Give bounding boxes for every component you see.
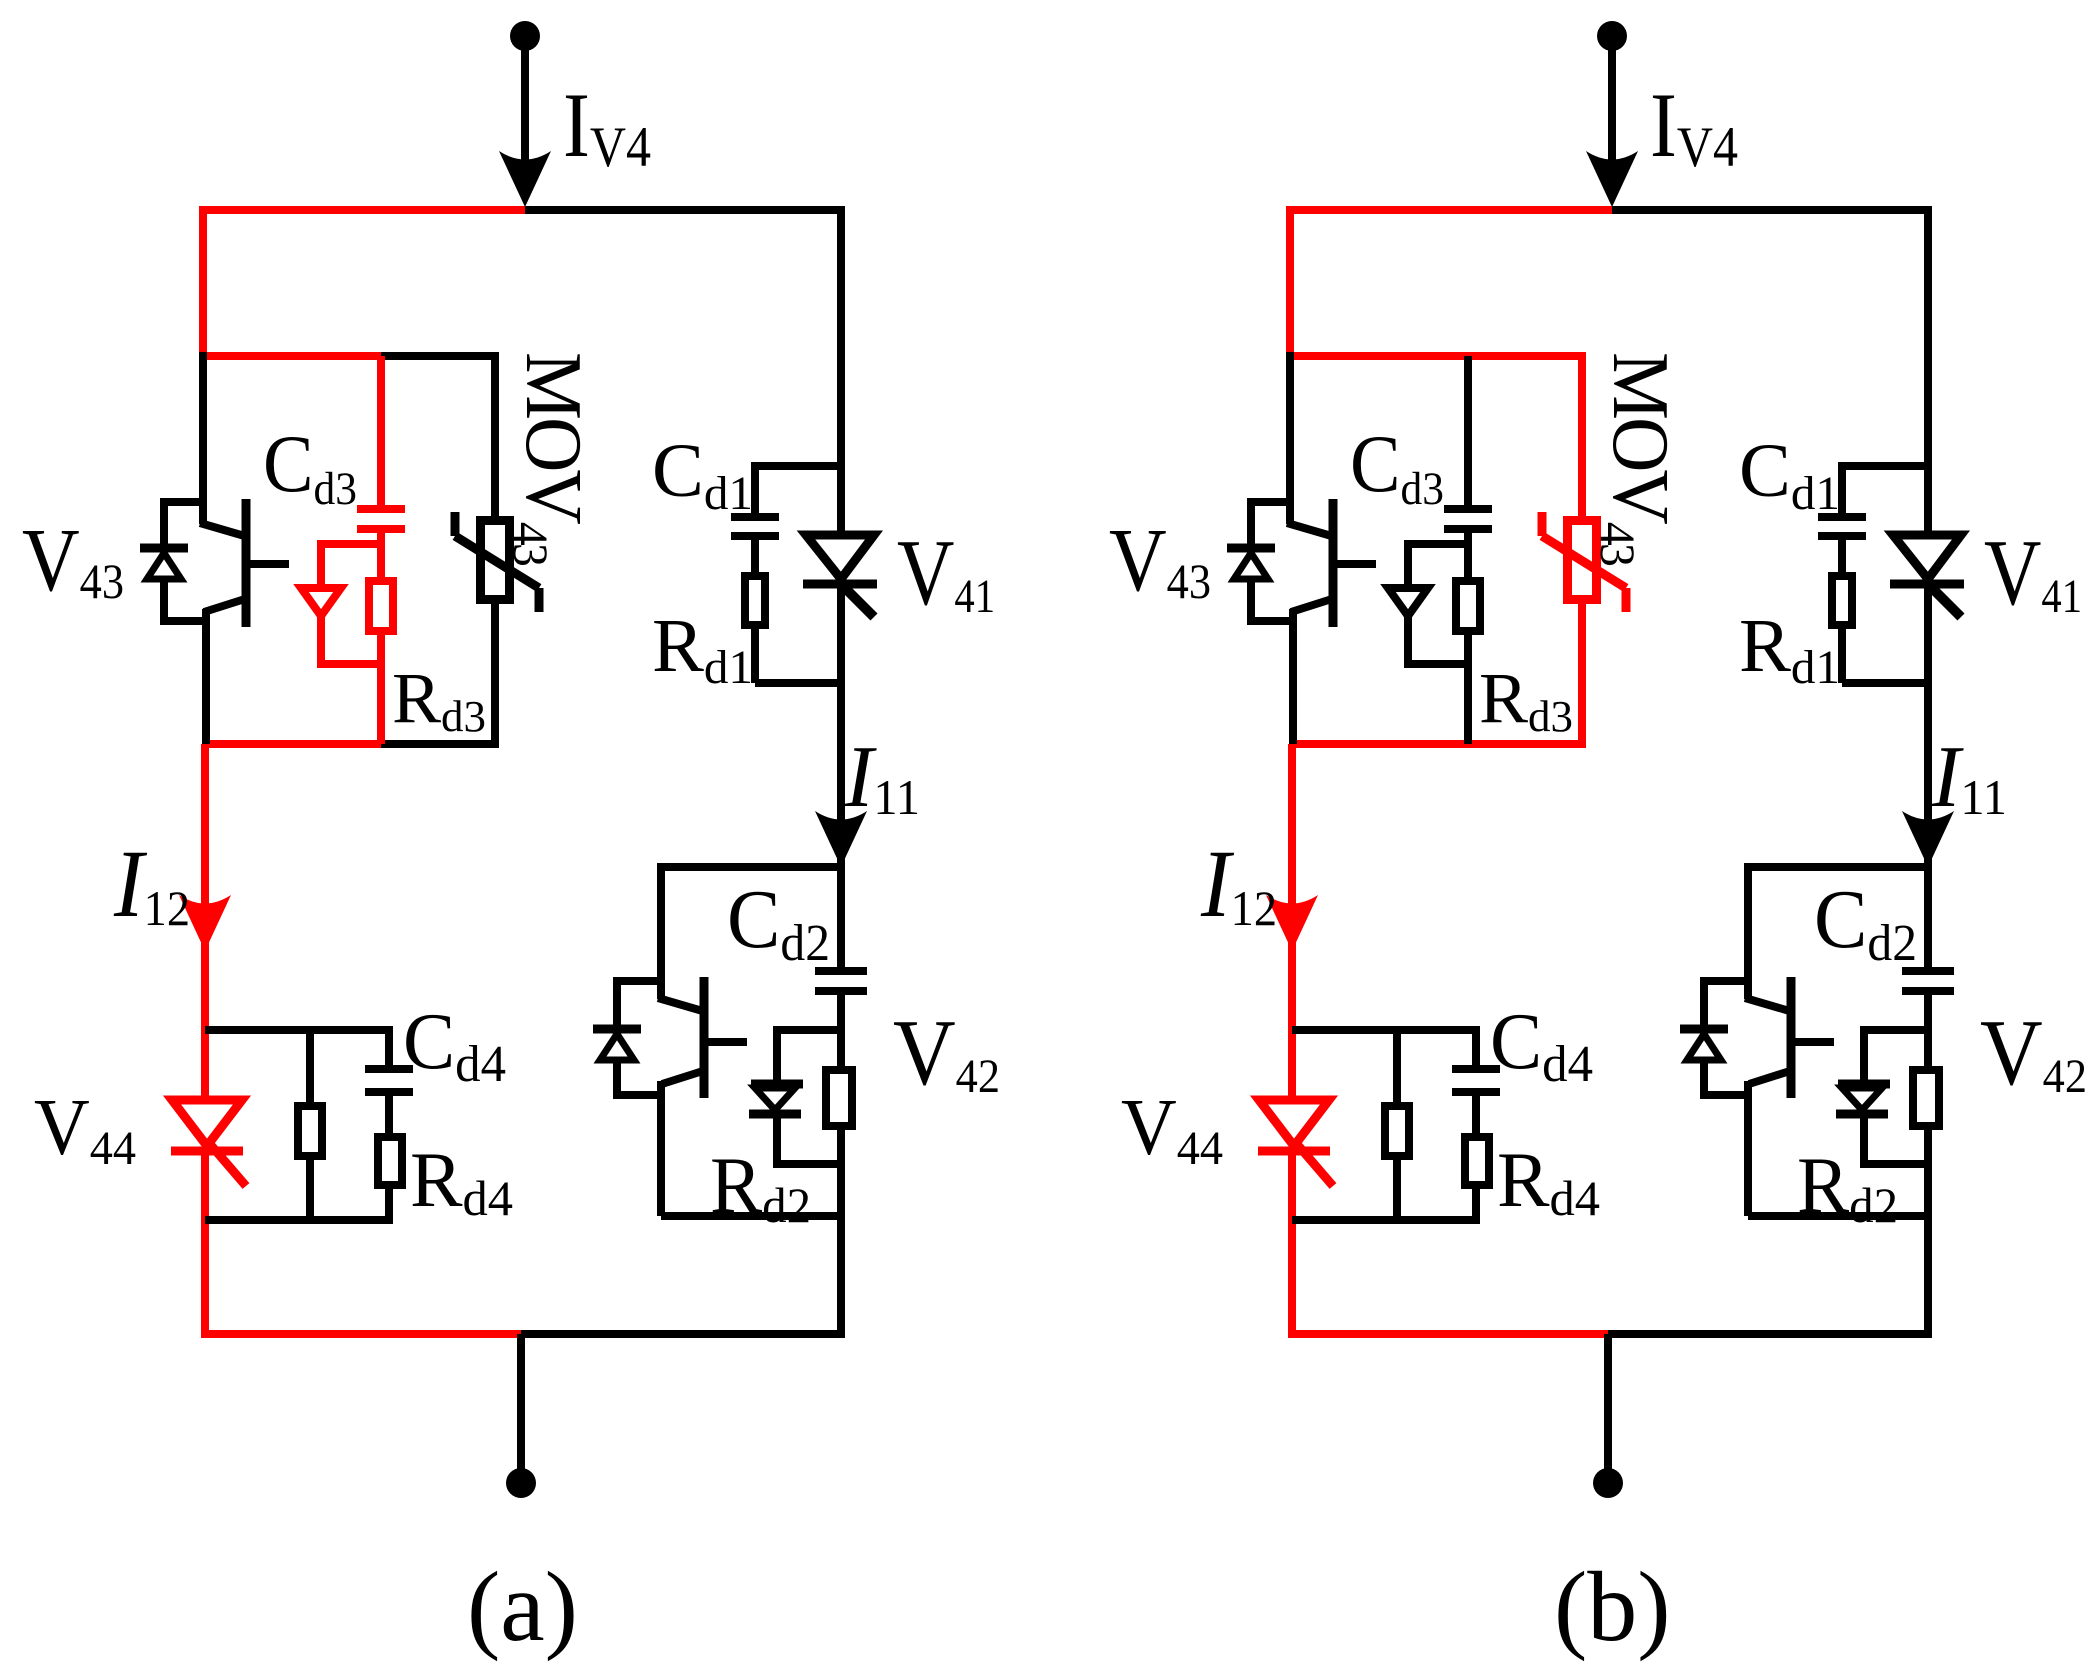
- wire: Rd3 branch lower (a): [377, 635, 385, 744]
- wire: right branch upper (a): [837, 206, 845, 531]
- resistor (grading) in V44 snubber (a): [298, 1106, 322, 1156]
- resistor Rd3 (b): [1456, 581, 1480, 631]
- node: top terminal (a): [510, 21, 540, 51]
- wire: top rail left (red) (a): [203, 206, 527, 214]
- wire: block bottom rail left (red) (b): [1290, 740, 1472, 748]
- current arrow I_11 (b): [1902, 811, 1954, 867]
- thyristor V44 (red) (b): [1259, 1100, 1329, 1146]
- wire: bottom terminal stem (a): [517, 1334, 525, 1469]
- current arrow I_12 (b): [1266, 895, 1318, 951]
- wire: merge below diode (b): [1408, 660, 1468, 668]
- resistor Rd3 (a): [369, 581, 393, 631]
- wire: Cd2 snubber diode tap (a): [777, 1026, 841, 1034]
- wire: bottom rail left (red) (b): [1288, 1330, 1610, 1338]
- wire: V44 cathode to bottom rail (red) (b): [1288, 1151, 1296, 1334]
- wire: right branch lower (a): [837, 1130, 845, 1334]
- wire: diode merge (a): [777, 1160, 841, 1168]
- wire: snubber block top rail (b): [1292, 1026, 1480, 1034]
- wire: Rd1 merge (a): [755, 679, 841, 687]
- svg-text:(b): (b): [1554, 1551, 1671, 1662]
- resistor Rd2 (b): [1913, 1070, 1939, 1126]
- wire: MOV branch lower (a): [491, 604, 499, 744]
- wire: block top rail right (a): [381, 352, 499, 360]
- wire: block top rail left (b): [1290, 352, 1468, 360]
- wire: block top rail left (a): [203, 352, 381, 360]
- wire: left branch to V44 (red) (a): [201, 744, 209, 1100]
- wire: MOV branch upper (a): [491, 356, 499, 518]
- transistor V43 (IGBT with antiparallel diode) (b): [1286, 352, 1294, 524]
- capacitor Cd4 (a): [365, 1065, 413, 1073]
- wire: Cd3 branch upper (b): [1464, 356, 1472, 507]
- wire: bottom rail right (b): [1608, 1330, 1932, 1338]
- current arrow I_V4 (b): [1586, 151, 1638, 207]
- capacitor Cd4 (b): [1452, 1065, 1500, 1073]
- wire: Rd1 merge (b): [1842, 679, 1928, 687]
- wire: split to diode branch (a): [321, 540, 381, 548]
- wire: top rail right (a): [525, 206, 841, 214]
- wire: Cd2 snubber diode tap (b): [1864, 1026, 1928, 1034]
- wire: bottom rail right (a): [521, 1330, 845, 1338]
- wire: block bottom rail right (b): [1468, 740, 1586, 748]
- resistor Rd4 (b): [1465, 1137, 1489, 1185]
- wire: MOV branch upper (b): [1578, 356, 1586, 518]
- wire: bottom terminal stem (b): [1604, 1334, 1612, 1469]
- transistor V42 (IGBT with antiparallel diode) (b): [1744, 863, 1752, 999]
- current arrow I_V4 (a): [499, 151, 551, 207]
- resistor Rd1 (b): [1832, 576, 1852, 625]
- transistor V43 (IGBT with antiparallel diode) (a): [199, 352, 207, 524]
- wire: left drop (red) (b): [1286, 206, 1294, 356]
- wire: split to diode branch (b): [1408, 540, 1468, 548]
- wire: snubber block bottom rail (b): [1292, 1216, 1480, 1224]
- wire: bottom rail left (red) (a): [201, 1330, 523, 1338]
- capacitor Cd2 (a): [815, 967, 867, 975]
- wire: Cd3 to split (b): [1464, 533, 1472, 581]
- wire: right branch mid (a): [837, 584, 845, 866]
- wire: right branch lower (b): [1924, 1130, 1932, 1334]
- varistor MOV43 (b): [1568, 521, 1597, 600]
- wire: right branch upper (b): [1924, 206, 1932, 531]
- wire: V42 block top rail (b): [1748, 863, 1932, 871]
- resistor (grading) in V44 snubber (b): [1385, 1106, 1409, 1156]
- resistor Rd2 (a): [826, 1070, 852, 1126]
- wire: left drop (red) (a): [199, 206, 207, 356]
- diode: antiparallel diode of V42 (b): [1704, 977, 1748, 985]
- node: bottom terminal (a): [506, 1468, 536, 1498]
- capacitor Cd3 (a): [357, 505, 405, 513]
- wire: right branch mid (b): [1924, 584, 1932, 866]
- wire: left branch to V44 (red) (b): [1288, 744, 1296, 1100]
- current arrow I_12 (a): [179, 895, 231, 951]
- diode: antiparallel diode of V42 (a): [617, 977, 661, 985]
- wire: block top rail right (b): [1468, 352, 1586, 360]
- capacitor Cd1 (b): [1818, 513, 1866, 521]
- resistor Rd4 (a): [378, 1137, 402, 1185]
- thyristor V44 (red) (a): [172, 1100, 242, 1146]
- svg-text:(a): (a): [467, 1551, 578, 1662]
- diode (freewheel, hollow) in Rd3 branch (b): [1388, 588, 1428, 616]
- wire: diode merge (b): [1864, 1160, 1928, 1168]
- capacitor Cd3 (b): [1444, 505, 1492, 513]
- capacitor Cd2 (b): [1902, 967, 1954, 975]
- resistor Rd1 (a): [745, 576, 765, 625]
- capacitor Cd1 (a): [731, 513, 779, 521]
- wire: block bottom rail right (a): [381, 740, 499, 748]
- wire: grading resistor branch (a): [306, 1030, 314, 1102]
- wire: Cd3 branch upper (a): [377, 356, 385, 507]
- diode: antiparallel diode of V43 (a): [164, 498, 206, 506]
- wire: V42 block top rail (a): [661, 863, 845, 871]
- wire: main line into Cd2 (b): [1924, 863, 1932, 969]
- wire: V42 block bottom rail (a): [661, 1212, 845, 1220]
- diode in Rd2 branch (b): [1860, 1026, 1868, 1084]
- transistor V42 (IGBT with antiparallel diode) (a): [657, 863, 665, 999]
- wire: Cd1 tap (a): [755, 462, 841, 470]
- wire: top rail right (b): [1612, 206, 1928, 214]
- diode in Rd2 branch (a): [773, 1026, 781, 1084]
- thyristor V41 (b): [1893, 535, 1961, 579]
- thyristor V41 (a): [806, 535, 874, 579]
- diode: antiparallel diode of V43 (b): [1251, 498, 1293, 506]
- wire: Cd4 branch upper (a): [385, 1030, 393, 1067]
- wire: snubber block bottom rail (a): [205, 1216, 393, 1224]
- node: top terminal (b): [1597, 21, 1627, 51]
- wire: top rail left (red) (b): [1290, 206, 1614, 214]
- wire: snubber block top rail (a): [205, 1026, 393, 1034]
- wire: MOV branch lower (b): [1578, 604, 1586, 744]
- current arrow I_11 (a): [815, 811, 867, 867]
- diode (freewheel, hollow) in Rd3 branch (a): [301, 588, 341, 616]
- wire: merge below diode (a): [321, 660, 381, 668]
- wire: V44 cathode to bottom rail (red) (a): [201, 1151, 209, 1334]
- wire: block bottom rail left (red) (a): [203, 740, 385, 748]
- wire: V42 block bottom rail (b): [1748, 1212, 1932, 1220]
- wire: grading resistor branch (b): [1393, 1030, 1401, 1102]
- wire: main line into Cd2 (a): [837, 863, 845, 969]
- node: bottom terminal (b): [1593, 1468, 1623, 1498]
- varistor MOV43 (a): [481, 521, 510, 600]
- wire: Cd1 tap (b): [1842, 462, 1928, 470]
- wire: Cd4 branch upper (b): [1472, 1030, 1480, 1067]
- wire: Cd3 to split (a): [377, 533, 385, 581]
- wire: Rd3 branch lower (b): [1464, 635, 1472, 744]
